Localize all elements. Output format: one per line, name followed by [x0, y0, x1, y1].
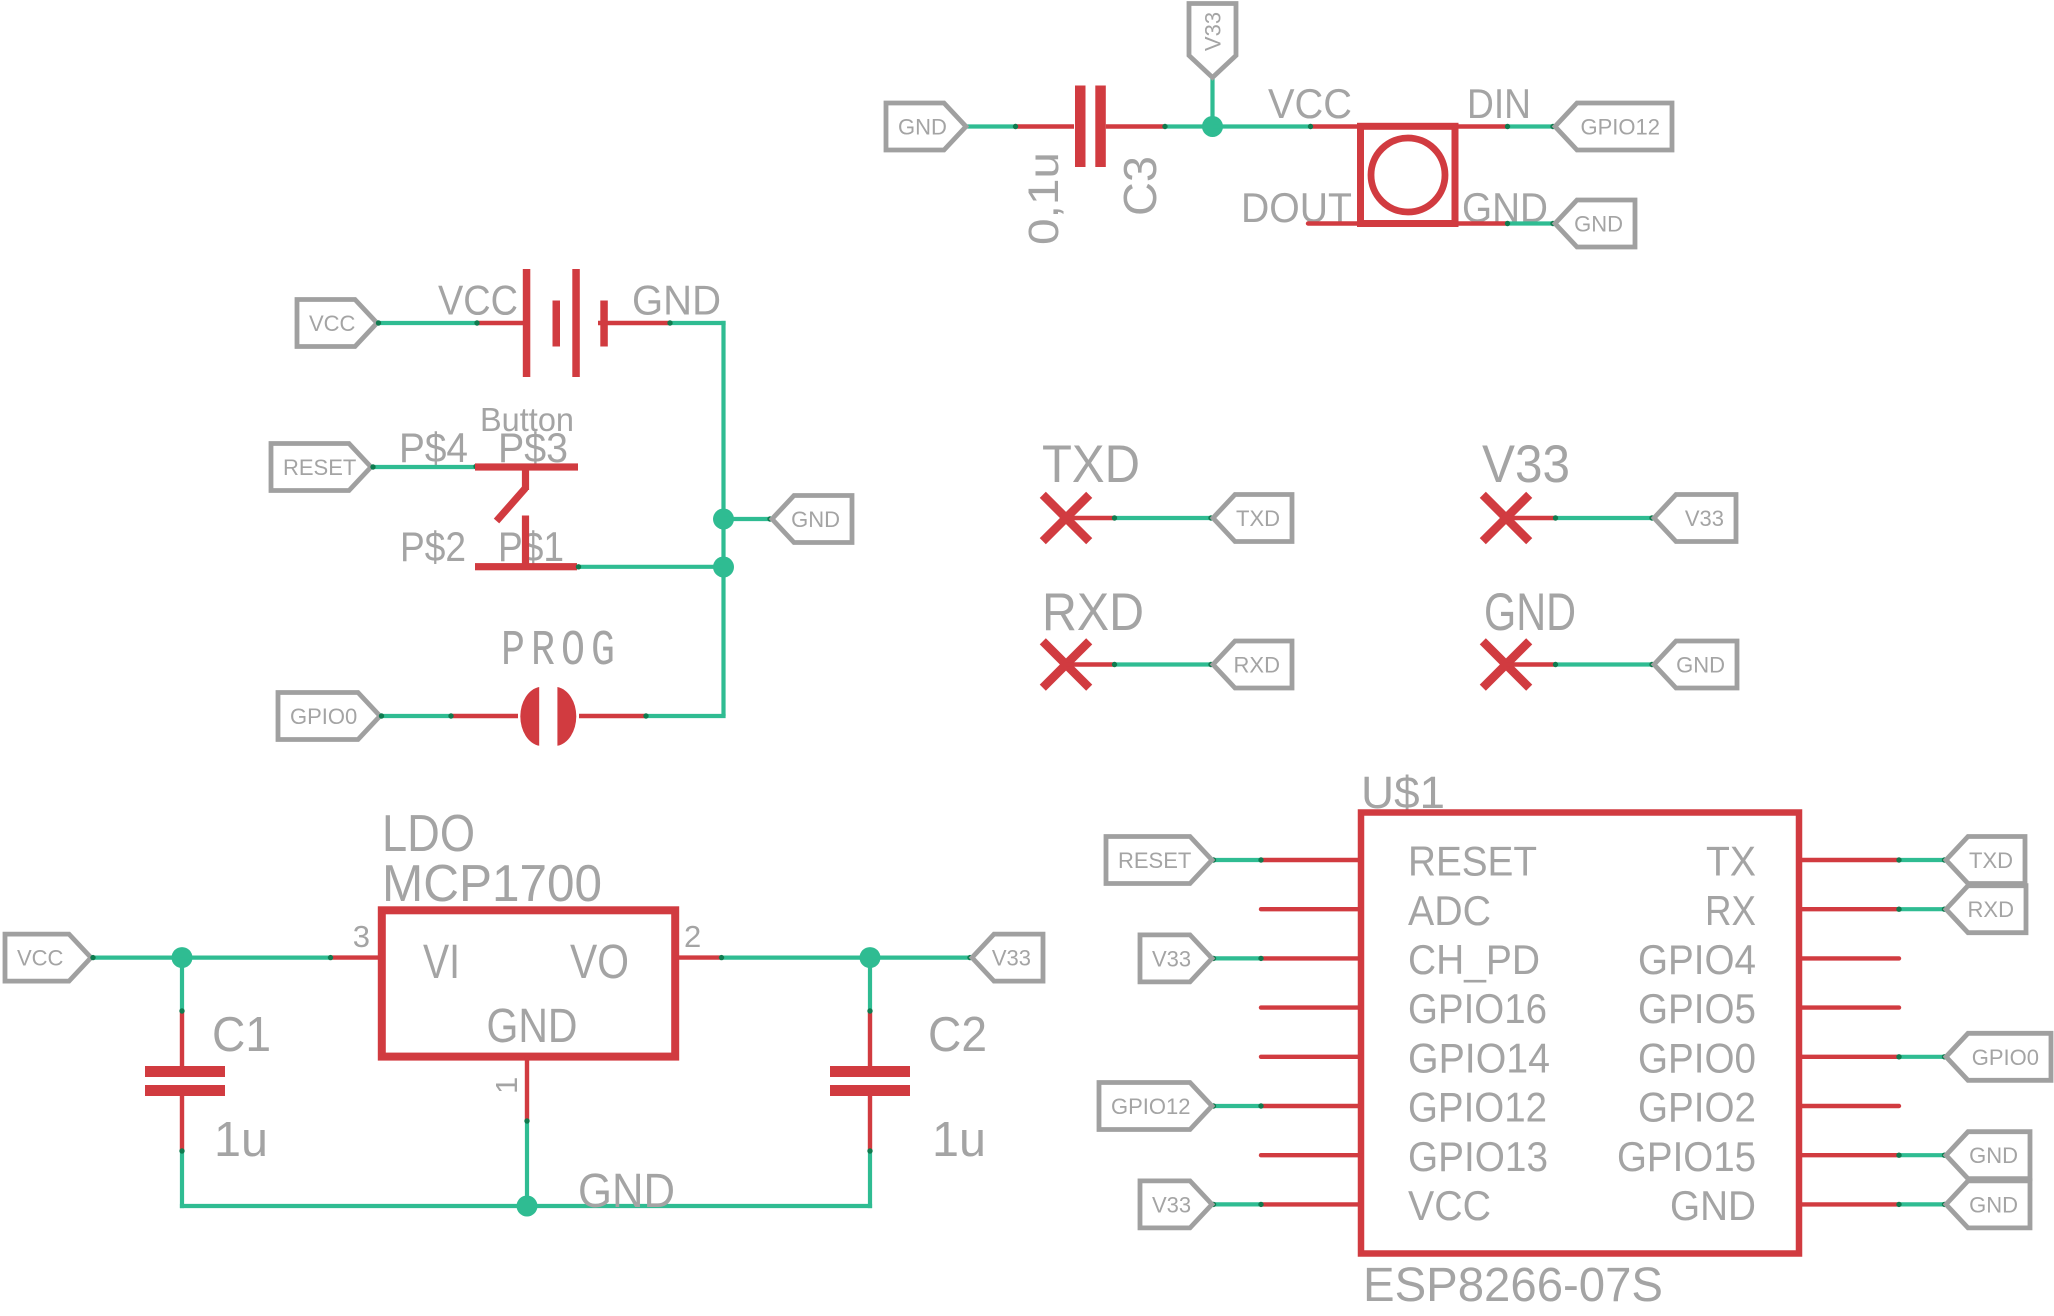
pin wire LED DOUT (stub): [1308, 221, 1361, 225]
pin wire battery minus: [598, 321, 671, 325]
wire V33 pad to flag: [1554, 516, 1654, 520]
pin wire U$1 RESET (left): [1261, 858, 1361, 862]
wire GPIO0 flag to PROG: [380, 714, 452, 718]
junction dot (pin connection): [576, 564, 581, 569]
svg-text:TXD: TXD: [1236, 506, 1280, 531]
pin wire U$1 GPIO16 (left): [1261, 1005, 1361, 1009]
junction dot (pin connection): [1649, 515, 1654, 520]
junction dot (pin connection): [1258, 857, 1263, 862]
net flag GND (mid2): [1654, 641, 1737, 688]
pin wire U$1 GPIO12 (left): [1261, 1104, 1361, 1108]
junction dot (pin connection): [1896, 1054, 1901, 1059]
junction dot (pin connection): [1211, 1103, 1216, 1108]
svg-text:V33: V33: [1152, 1192, 1191, 1217]
junction dot (pin connection): [1942, 1202, 1947, 1207]
pin wire V33 pad: [1506, 516, 1556, 520]
svg-text:RESET: RESET: [283, 455, 356, 480]
junction dot (pin connection): [1942, 907, 1947, 912]
junction dot (pin connection): [1258, 1103, 1263, 1108]
wire GND rail (bottom): [180, 1204, 872, 1208]
junction dot (pin connection): [867, 1148, 872, 1153]
net flag V33 (U$1 left): [1140, 1181, 1212, 1228]
wire junction down to C2: [868, 958, 872, 1012]
wire VCC flag to battery: [377, 321, 478, 325]
svg-text:1u: 1u: [932, 1113, 986, 1167]
pin wire U$1 CH_PD (left): [1261, 956, 1361, 960]
wire U$1 to GND flag: [1898, 1202, 1947, 1206]
svg-text:RXD: RXD: [1968, 897, 2014, 922]
svg-text:C2: C2: [928, 1008, 987, 1062]
junction node button/PROG: [713, 557, 734, 578]
svg-text:GND: GND: [1574, 212, 1623, 237]
capacitor C1 plates: [145, 1066, 225, 1096]
solder jumper PROG pads: [520, 687, 576, 746]
pushbutton switch contacts: [475, 463, 578, 570]
svg-text:P$1: P$1: [498, 523, 564, 570]
junction node V33/C2: [860, 947, 881, 968]
svg-text:TXD: TXD: [1969, 848, 2013, 873]
junction dot (pin connection): [370, 464, 375, 469]
wire junction to GND flag: [724, 517, 773, 521]
wire TXD pad to flag: [1113, 516, 1213, 520]
net flag VCC (battery): [297, 300, 377, 347]
pin wire U$1 VCC (left): [1261, 1202, 1361, 1206]
svg-text:GND: GND: [1676, 653, 1725, 678]
wire U$1 to GND flag: [1898, 1153, 1947, 1157]
junction dot (pin connection): [328, 955, 333, 960]
svg-text:1: 1: [489, 1077, 524, 1094]
junction dot (pin connection): [1942, 1153, 1947, 1158]
wire DIN to GPIO12 flag: [1506, 124, 1555, 128]
svg-text:RESET: RESET: [1118, 848, 1191, 873]
junction dot (pin connection): [379, 713, 384, 718]
junction node GND rail: [517, 1196, 538, 1217]
wire LED GND to flag: [1506, 221, 1555, 225]
wire PROG to GND vertical: [645, 714, 726, 718]
net flag TXD (U$1 right): [1946, 837, 2025, 884]
junction dot (pin connection): [1896, 1202, 1901, 1207]
wire C3 to junction: [1164, 124, 1212, 128]
pin wire LED GND: [1455, 221, 1508, 225]
pin wire U$1 GPIO5 (right): [1799, 1005, 1899, 1009]
wire V33 flag to U$1: [1212, 1202, 1263, 1206]
pin wire TXD pad: [1066, 516, 1115, 520]
svg-text:1u: 1u: [214, 1113, 268, 1167]
svg-text:GND: GND: [1969, 1143, 2018, 1168]
net flag RXD (U$1 right): [1946, 886, 2026, 933]
net flag GND (U$1 right): [1946, 1132, 2030, 1179]
svg-text:V33: V33: [1152, 946, 1191, 971]
wire C2 to GND rail: [868, 1150, 872, 1208]
junction dot (pin connection): [474, 320, 479, 325]
pin wire LDO GND (1): [525, 1057, 529, 1122]
wire GND pad to flag: [1554, 662, 1654, 666]
pin wire PROG right: [579, 714, 647, 718]
test pad cross RXD: [1043, 641, 1089, 687]
junction dot (pin connection): [1208, 662, 1213, 667]
pin wire C3 left: [1014, 124, 1074, 128]
junction node V33/C3: [1202, 116, 1223, 137]
net flag GPIO0 (PROG): [278, 693, 380, 740]
junction dot (pin connection): [643, 713, 648, 718]
svg-text:GND: GND: [1670, 1182, 1756, 1229]
net flag V33 (LDO): [972, 934, 1043, 981]
svg-text:C3: C3: [1114, 156, 1166, 216]
pin wire battery plus: [476, 321, 524, 325]
wire GND net to C3: [964, 124, 1016, 128]
junction dot (pin connection): [1211, 857, 1216, 862]
svg-text:GND: GND: [898, 115, 947, 140]
pin wire LDO VO (2): [675, 955, 722, 959]
svg-text:GND: GND: [487, 1000, 578, 1053]
svg-text:VCC: VCC: [17, 946, 64, 971]
junction dot (pin connection): [1208, 515, 1213, 520]
junction dot (pin connection): [376, 320, 381, 325]
svg-text:GPIO12: GPIO12: [1408, 1084, 1547, 1131]
junction dot (pin connection): [1896, 907, 1901, 912]
svg-text:CH_PD: CH_PD: [1408, 936, 1540, 983]
wire junction down to C1: [180, 958, 184, 1012]
pin wire U$1 GPIO2 (right): [1799, 1104, 1899, 1108]
svg-text:2: 2: [684, 919, 701, 954]
wire LDO VO to junction: [720, 955, 870, 959]
junction dot (pin connection): [1211, 1202, 1216, 1207]
junction dot (pin connection): [1550, 221, 1555, 226]
svg-text:0,1u: 0,1u: [1020, 152, 1068, 245]
svg-text:GPIO16: GPIO16: [1408, 985, 1547, 1032]
net flag V33 (top): [1189, 4, 1236, 78]
wire LDO GND down: [525, 1120, 529, 1206]
svg-text:VCC: VCC: [309, 311, 356, 336]
junction dot (pin connection): [1162, 124, 1167, 129]
junction dot (pin connection): [1505, 124, 1510, 129]
pin wire C2 top: [868, 1010, 872, 1066]
pin wire LDO VI (3): [330, 955, 382, 959]
svg-text:GPIO0: GPIO0: [1638, 1034, 1756, 1081]
svg-text:GPIO15: GPIO15: [1617, 1133, 1756, 1180]
pin wire U$1 ADC (left): [1261, 907, 1361, 911]
junction dot (pin connection): [867, 1008, 872, 1013]
svg-text:TX: TX: [1706, 838, 1756, 885]
IC U$1 ESP8266-07S body: [1361, 813, 1799, 1254]
capacitor C2 plates: [830, 1066, 910, 1096]
junction dot (pin connection): [667, 320, 672, 325]
svg-text:V33: V33: [992, 946, 1031, 971]
junction node GND (flag tap): [713, 509, 734, 530]
net flag GPIO12 (top): [1555, 103, 1672, 150]
junction dot (pin connection): [448, 713, 453, 718]
pin wire U$1 GPIO15 (right): [1799, 1153, 1899, 1157]
junction dot (pin connection): [1553, 515, 1558, 520]
junction dot (pin connection): [1505, 221, 1510, 226]
svg-text:GND: GND: [632, 277, 721, 324]
svg-text:VCC: VCC: [438, 277, 518, 324]
pin wire U$1 TX (right): [1799, 858, 1899, 862]
junction dot (pin connection): [1550, 124, 1555, 129]
pin wire C1 bottom: [180, 1096, 184, 1152]
svg-text:V33: V33: [1201, 12, 1226, 51]
svg-text:C1: C1: [212, 1008, 271, 1062]
net flag RESET (U$1 left): [1106, 837, 1212, 884]
junction dot (pin connection): [1013, 124, 1018, 129]
wire button P$1 to junction: [577, 565, 724, 569]
svg-text:GPIO0: GPIO0: [1972, 1045, 2039, 1070]
net flag GPIO0 (U$1 right): [1946, 1033, 2051, 1080]
svg-text:P$2: P$2: [400, 523, 466, 570]
net flag GPIO12 (U$1 left): [1099, 1083, 1212, 1130]
pin wire U$1 GPIO13 (left): [1261, 1153, 1361, 1157]
junction dot (pin connection): [719, 955, 724, 960]
svg-text:RXD: RXD: [1234, 653, 1280, 678]
wire U$1 to TXD flag: [1898, 858, 1947, 862]
svg-text:V33: V33: [1482, 435, 1570, 494]
test pad cross TXD: [1043, 495, 1089, 541]
svg-text:GPIO0: GPIO0: [290, 704, 357, 729]
net flag V33 (mid): [1654, 495, 1736, 542]
junction dot (pin connection): [1211, 956, 1216, 961]
svg-text:VI: VI: [423, 936, 460, 989]
junction dot (pin connection): [967, 955, 972, 960]
svg-text:RXD: RXD: [1042, 583, 1144, 642]
net flag RXD (mid): [1213, 641, 1292, 688]
svg-text:RX: RX: [1705, 887, 1756, 934]
svg-text:GND: GND: [1484, 583, 1576, 642]
wire V33 flag to U$1: [1212, 956, 1263, 960]
svg-text:VCC: VCC: [1408, 1182, 1491, 1229]
pin wire C1 top: [180, 1010, 184, 1066]
svg-text:GPIO12: GPIO12: [1581, 115, 1660, 140]
svg-text:GPIO12: GPIO12: [1111, 1094, 1190, 1119]
test pad cross GND: [1483, 641, 1529, 687]
junction dot (pin connection): [1896, 1153, 1901, 1158]
battery cell symbol: [523, 269, 608, 377]
svg-text:TXD: TXD: [1042, 435, 1140, 494]
LED module (WS2812) body: [1361, 126, 1456, 223]
wire junction to LDO VI: [182, 955, 332, 959]
pin wire RXD pad: [1066, 662, 1115, 666]
wire U$1 to RXD flag: [1898, 907, 1947, 911]
net flag GND (mid): [772, 496, 852, 543]
junction dot (pin connection): [1112, 662, 1117, 667]
wire RXD pad to flag: [1113, 662, 1213, 666]
pin wire U$1 GND (right): [1799, 1202, 1899, 1206]
wire GND vertical run: [721, 321, 725, 716]
junction dot (pin connection): [1112, 515, 1117, 520]
pin wire U$1 GPIO4 (right): [1799, 956, 1899, 960]
wire V33 drop: [1210, 75, 1214, 127]
svg-text:GND: GND: [578, 1165, 675, 1218]
svg-text:DIN: DIN: [1467, 80, 1531, 127]
net flag GND (U$1 right): [1946, 1181, 2030, 1228]
junction dot (pin connection): [1896, 857, 1901, 862]
junction dot (pin connection): [1258, 1202, 1263, 1207]
svg-text:3: 3: [353, 919, 370, 954]
pin wire LED DIN: [1455, 124, 1508, 128]
LDO MCP1700 body: [382, 910, 675, 1056]
junction dot (pin connection): [473, 464, 478, 469]
wire junction to V33 flag: [870, 955, 972, 959]
junction dot (pin connection): [1308, 124, 1313, 129]
wire C1 to GND rail: [180, 1150, 184, 1208]
svg-text:MCP1700: MCP1700: [382, 855, 602, 913]
net flag TXD (mid): [1213, 495, 1292, 542]
junction dot (pin connection): [1553, 662, 1558, 667]
junction dot (pin connection): [90, 955, 95, 960]
svg-text:VO: VO: [570, 936, 629, 989]
svg-text:RESET: RESET: [1408, 838, 1537, 885]
pin wire U$1 GPIO14 (left): [1261, 1055, 1361, 1059]
svg-text:GND: GND: [1969, 1192, 2018, 1217]
wire junction to LED VCC: [1213, 124, 1313, 128]
pin wire U$1 GPIO0 (right): [1799, 1055, 1899, 1059]
net flag GND (LED): [1555, 200, 1635, 247]
wire U$1 to GPIO0 flag: [1898, 1055, 1947, 1059]
svg-text:PROG: PROG: [501, 622, 621, 679]
pin wire GND pad: [1506, 662, 1556, 666]
net flag GND (C3 left): [886, 103, 966, 150]
svg-text:V33: V33: [1685, 506, 1724, 531]
svg-text:GPIO4: GPIO4: [1638, 936, 1756, 983]
svg-text:VCC: VCC: [1268, 80, 1352, 127]
svg-text:GPIO13: GPIO13: [1408, 1133, 1548, 1180]
svg-text:ESP8266-07S: ESP8266-07S: [1363, 1259, 1663, 1312]
net flag VCC (LDO): [5, 934, 91, 981]
junction dot (pin connection): [767, 516, 772, 521]
pin wire PROG left: [450, 714, 518, 718]
svg-text:GPIO14: GPIO14: [1408, 1034, 1550, 1081]
wire VCC flag to junction: [91, 955, 182, 959]
pin wire C3 right: [1106, 124, 1166, 128]
wire GPIO12 flag to U$1: [1212, 1104, 1263, 1108]
pin wire LED VCC: [1310, 124, 1361, 128]
svg-text:GPIO2: GPIO2: [1638, 1084, 1756, 1131]
svg-text:P$4: P$4: [399, 424, 468, 471]
junction dot (pin connection): [179, 1008, 184, 1013]
junction dot (pin connection): [1942, 857, 1947, 862]
svg-text:GPIO5: GPIO5: [1638, 985, 1756, 1032]
junction dot (pin connection): [179, 1148, 184, 1153]
svg-text:GND: GND: [791, 507, 840, 532]
wire battery to corner: [669, 321, 726, 325]
junction node VCC/C1: [172, 947, 193, 968]
wire RESET flag to button: [371, 465, 477, 469]
wire RESET flag to U$1: [1212, 858, 1263, 862]
pin wire C2 bottom: [868, 1096, 872, 1152]
junction dot (pin connection): [524, 1118, 529, 1123]
capacitor C3 plates: [1075, 86, 1106, 168]
junction dot (pin connection): [1649, 662, 1654, 667]
pin wire U$1 RX (right): [1799, 907, 1899, 911]
test pad cross V33: [1483, 495, 1529, 541]
net flag V33 (U$1 left): [1140, 935, 1212, 982]
junction dot (pin connection): [1942, 1054, 1947, 1059]
svg-text:ADC: ADC: [1408, 887, 1491, 934]
net flag RESET (button): [271, 444, 371, 491]
junction dot (pin connection): [1258, 956, 1263, 961]
